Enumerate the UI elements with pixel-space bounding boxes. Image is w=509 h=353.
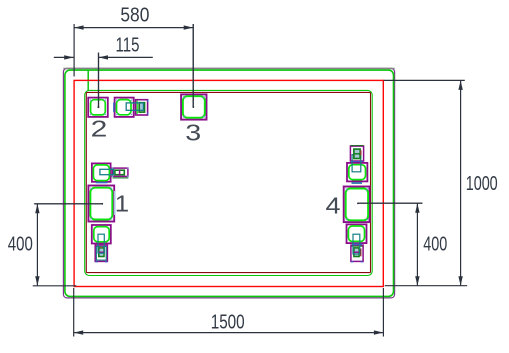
socket B blue tick left xyxy=(113,103,115,113)
connector L1c dark green ring xyxy=(115,170,124,175)
box 4 center dot xyxy=(357,203,359,205)
connector R2c blue ticks bottom xyxy=(351,261,363,263)
dimension 400 right arrow down xyxy=(415,276,419,286)
outer frame green rect xyxy=(65,70,394,296)
connector R1 green top line xyxy=(350,145,363,147)
outer frame gray top line xyxy=(63,68,394,70)
svg-text:400: 400 xyxy=(8,234,33,256)
box 4 green rounded rect xyxy=(346,189,368,221)
box 2 center dot xyxy=(98,106,100,108)
box 4 corner marks xyxy=(346,189,368,221)
box 3 center dot xyxy=(192,106,194,108)
dimension 580 arrow left xyxy=(74,25,84,29)
connector L1c purple divider xyxy=(119,170,121,175)
connector R2c green top line xyxy=(352,245,363,247)
connector R2c purple rect xyxy=(351,245,363,261)
box 3 purple rect xyxy=(181,94,206,119)
svg-text:1: 1 xyxy=(115,192,129,218)
socket R2 green rounded square xyxy=(348,226,364,241)
connector R1 dark green ring xyxy=(354,149,360,158)
dimension 400 left arrow down xyxy=(35,276,39,286)
teal rect L1 (socket to connector) xyxy=(100,169,114,174)
box 2 green rounded square xyxy=(91,100,106,115)
connector R1 red tick xyxy=(360,150,362,155)
dimension 580 extension overdraw xyxy=(192,24,194,107)
connector L2c blue ticks bottom xyxy=(95,261,107,263)
dimension 580 extension line left xyxy=(73,24,75,77)
dimension 580 arrow right xyxy=(184,25,194,29)
socket L2 purple rect xyxy=(92,225,111,244)
connector C blue ticks right xyxy=(147,100,149,115)
dimension 115 right tail xyxy=(99,56,153,58)
connector L2c dark green ring xyxy=(99,248,104,257)
box 3 center dot overdraw xyxy=(192,106,194,108)
box 4 blue tick top xyxy=(352,182,363,184)
dimension 115 extension into box 2 xyxy=(98,53,100,108)
outer frame purple rect xyxy=(63,68,394,298)
socket B corner marks xyxy=(116,99,132,115)
socket L1 purple rect xyxy=(92,163,111,181)
socket B green rounded square xyxy=(117,100,132,115)
box 3 green rounded square xyxy=(183,96,205,118)
box 4 purple rect xyxy=(344,187,370,223)
dimension 1500 arrow left xyxy=(74,330,84,334)
shared bottom extension line right xyxy=(385,285,468,287)
connector L1c blue corner dots xyxy=(112,168,129,178)
svg-text:400: 400 xyxy=(423,234,447,256)
svg-text:4: 4 xyxy=(325,193,340,219)
dimension 400 right line xyxy=(416,203,418,286)
connector L2c green middle bar xyxy=(99,251,104,253)
inner frame maroon rect xyxy=(86,92,370,272)
dimension 115 extension overdraw xyxy=(98,53,100,108)
socket L2 green rounded square xyxy=(94,227,109,242)
dimension 1500 arrow right xyxy=(374,330,384,334)
inner frame green rect xyxy=(85,90,373,275)
dimension 400 right top extension from box 4 xyxy=(358,202,422,204)
dimension 580 line xyxy=(74,27,193,29)
box 2 purple rect xyxy=(88,98,108,117)
box 1 green rounded rect xyxy=(90,188,112,220)
dimension 400 right leader overdraw xyxy=(358,202,422,204)
connector L2c red tick xyxy=(100,246,102,248)
box 3 corner marks xyxy=(183,96,205,118)
svg-text:1500: 1500 xyxy=(211,312,245,334)
connector L2c purple rect xyxy=(95,245,107,261)
socket R1 green rounded square xyxy=(349,165,366,180)
dimension 1000 arrow up xyxy=(458,80,462,90)
socket B purple rect xyxy=(115,98,134,117)
green tick segment top-left xyxy=(87,70,89,90)
box 1 corner marks xyxy=(90,188,112,220)
connector R2c dark green ring xyxy=(354,248,359,257)
dimension 400 left line xyxy=(36,204,38,286)
connector C green left line xyxy=(136,101,138,114)
dimension 115 arrow pointing right xyxy=(64,55,74,59)
dimension 400 left leader overdraw xyxy=(34,203,102,205)
dimension 1000 line xyxy=(460,80,462,285)
dimension 400 left bottom extension xyxy=(33,285,77,287)
dimension 400 left arrow up xyxy=(35,204,39,214)
connector L2c teal inset rect xyxy=(96,247,106,261)
red rect 1500x1000 xyxy=(74,80,383,286)
svg-text:3: 3 xyxy=(185,119,201,146)
dimension 400 left top extension to box 1 xyxy=(34,203,102,205)
teal rect top (between socket B and connector C) xyxy=(126,103,143,110)
box 2 center dot overdraw xyxy=(98,106,100,108)
connector R1 blue bar below xyxy=(351,161,364,163)
box 1 center dot xyxy=(101,203,103,205)
connector R2c dark red mark xyxy=(360,249,362,257)
connector R1 purple rect xyxy=(350,146,363,161)
connector R2c pale interior xyxy=(355,249,359,256)
connector L2c pale interior xyxy=(100,249,104,256)
box 2 corner marks xyxy=(90,99,106,115)
connector L1c green underline xyxy=(113,177,129,179)
connector C dark green ring xyxy=(139,103,144,112)
connector R1 pale interior xyxy=(355,150,360,158)
dimension 400 right arrow up xyxy=(415,203,419,213)
dimension 1000 arrow down xyxy=(458,276,462,286)
socket L1 blue tick bottom xyxy=(96,182,108,184)
teal rect L2 vertical xyxy=(98,234,104,253)
connector R1 green middle bar xyxy=(354,153,360,155)
connector C purple rect xyxy=(136,100,148,115)
dimension 1500 left extension xyxy=(73,288,75,337)
socket R1 purple rect xyxy=(347,163,367,182)
dimension 1000 top extension xyxy=(384,79,465,81)
teal rect R1 vertical xyxy=(352,155,361,172)
connector L1c purple rect xyxy=(112,168,128,176)
connector R2c green middle bar xyxy=(354,251,359,253)
dimension 1500 right extension xyxy=(382,288,384,337)
dimension 1500 line xyxy=(74,332,384,334)
socket R2 purple rect xyxy=(347,224,367,243)
connector R2c blue top bar xyxy=(352,243,362,245)
svg-text:580: 580 xyxy=(120,5,149,27)
dimension 580 extension line right into box 3 xyxy=(192,24,194,107)
dimension 115 arrow pointing left xyxy=(99,55,109,59)
svg-text:1000: 1000 xyxy=(466,173,498,195)
svg-text:2: 2 xyxy=(91,116,108,142)
svg-text:115: 115 xyxy=(116,35,140,57)
box 1 purple rect xyxy=(88,186,114,222)
socket L1 green rounded square xyxy=(93,165,109,181)
teal rect R2 vertical xyxy=(353,234,360,254)
connector C pale interior xyxy=(140,103,144,111)
dimension 115 left tail xyxy=(54,56,74,58)
box 1 pale blue bar right xyxy=(114,191,116,215)
